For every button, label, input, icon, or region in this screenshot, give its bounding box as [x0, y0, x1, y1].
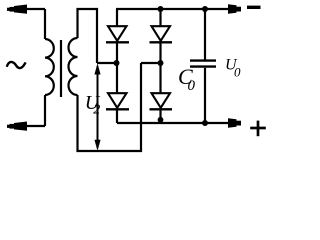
capacitor C0: [190, 9, 216, 123]
plus terminal label: [250, 121, 266, 137]
wire: secondary bottom loop (down, right, up): [78, 63, 142, 151]
junction node B: [158, 60, 164, 66]
arrow: bottom bus output pointing right: [228, 118, 241, 127]
wire: primary bottom vertical: [44, 95, 46, 126]
voltage arrow U2 (double headed): [94, 64, 100, 151]
diode D3 (bottom left of bridge): [106, 63, 129, 123]
minus terminal label: [247, 6, 261, 9]
transformer secondary winding: [69, 38, 78, 95]
svg-text:2: 2: [93, 103, 100, 118]
diode D1 (top left of bridge): [106, 9, 129, 63]
wire: bottom AC lead horizontal: [9, 125, 45, 127]
junction D2 top on bus: [158, 6, 164, 12]
wire: bottom output bus: [117, 122, 237, 124]
junction capacitor top on bus: [202, 6, 208, 12]
wire: top output bus: [116, 8, 237, 10]
wire: node A horizontal: [97, 62, 117, 64]
junction node A: [114, 60, 120, 66]
wire: top AC lead horizontal: [9, 8, 45, 10]
junction D4 bottom on bus: [158, 117, 164, 123]
junction capacitor bottom on bus: [202, 120, 208, 126]
transformer core line: [60, 40, 62, 97]
arrow: top bus output pointing right: [228, 4, 241, 13]
diode D2 (top right of bridge): [150, 9, 173, 63]
wire: node B horizontal: [141, 62, 161, 64]
diode D4 (bottom right of bridge): [150, 63, 173, 123]
arrow: top AC lead pointing left: [7, 5, 27, 14]
svg-text:0: 0: [188, 78, 196, 94]
wire: secondary top to node A (up, right, down): [78, 9, 98, 63]
arrow: bottom AC lead pointing left: [7, 122, 27, 131]
ac source symbol ~: [7, 62, 26, 68]
wire: primary top vertical: [44, 9, 46, 39]
transformer primary winding: [45, 39, 54, 95]
svg-text:0: 0: [234, 65, 241, 80]
